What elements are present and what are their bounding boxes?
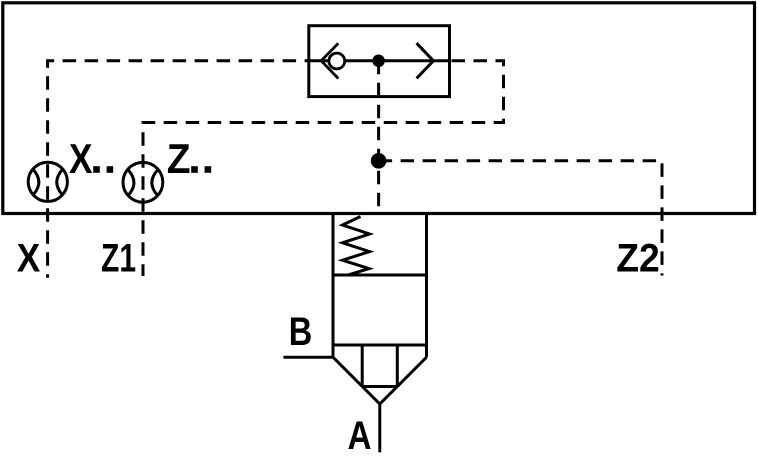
poppet seat diagonals bbox=[333, 357, 427, 404]
check valve ball bbox=[329, 53, 345, 69]
flow line through box bbox=[309, 59, 450, 62]
pilot line to valve (dashed): from metering node down to cartridge bbox=[377, 61, 380, 214]
spring bbox=[343, 217, 370, 275]
svg-text:B: B bbox=[289, 310, 313, 354]
pilot line X (dashed): from check box left to port X bbox=[48, 61, 309, 278]
pilot line Z1 (dashed): from check box right, down, left, down through port Z1 bbox=[143, 61, 504, 276]
check/orifice box U1 bbox=[309, 26, 450, 97]
flow arrow bbox=[417, 43, 434, 78]
poppet seat inner square bbox=[362, 345, 397, 387]
port B line bbox=[284, 356, 334, 359]
svg-text:A: A bbox=[348, 414, 372, 458]
svg-text:X: X bbox=[69, 135, 93, 182]
pilot line Z2 (dashed): from junction node right and down bbox=[379, 161, 662, 276]
svg-text:Z1: Z1 bbox=[101, 236, 136, 280]
svg-text:Z2: Z2 bbox=[616, 236, 660, 280]
junction node bbox=[371, 153, 387, 169]
svg-text:X: X bbox=[17, 236, 41, 280]
svg-text:Z: Z bbox=[167, 135, 191, 182]
node: metering point bbox=[372, 55, 385, 68]
port plug X.. bbox=[28, 162, 67, 201]
manifold block outline bbox=[3, 3, 755, 214]
check valve seat bbox=[321, 43, 338, 78]
cartridge valve body bbox=[333, 214, 427, 358]
port A line bbox=[378, 404, 381, 452]
port plug Z1 bbox=[123, 162, 163, 202]
